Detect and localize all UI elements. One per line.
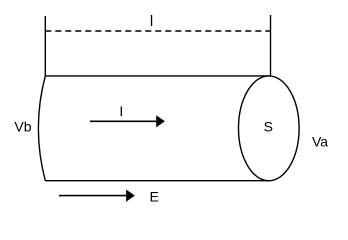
- field arrow E head: [126, 190, 135, 202]
- cylinder left end arc: [38, 76, 45, 181]
- cylinder top line: [45, 75, 270, 77]
- cylinder bottom line: [45, 180, 269, 182]
- svg-text:Va: Va: [312, 134, 328, 150]
- svg-text:I: I: [119, 103, 123, 119]
- svg-text:l: l: [150, 13, 153, 30]
- cylinder right end ellipse S: [238, 76, 299, 181]
- svg-text:Vb: Vb: [14, 118, 31, 134]
- current arrow I head: [156, 115, 165, 127]
- svg-text:E: E: [150, 189, 159, 205]
- dashed length line: [45, 30, 270, 32]
- current arrow I shaft: [90, 120, 157, 122]
- svg-text:S: S: [264, 118, 273, 134]
- right extent tick: [270, 15, 272, 76]
- field arrow E shaft: [59, 195, 127, 197]
- left extent tick: [44, 16, 46, 76]
